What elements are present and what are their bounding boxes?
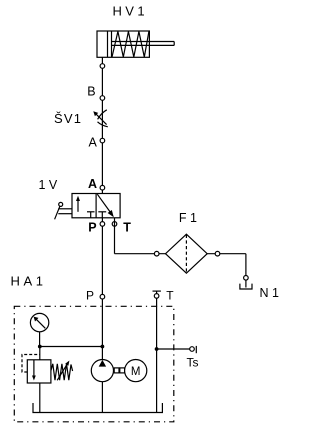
svg-text:1 V: 1 V [39,178,58,192]
cylinder HV1 spring [112,32,149,58]
junction at branch right [101,345,105,349]
node T at valve [112,222,117,227]
svg-text:F 1: F 1 [179,211,197,225]
relief valve pilot line [22,355,40,373]
node P at HA1 [100,294,105,299]
junction Ts branch [155,347,159,351]
node filter outlet [215,251,220,256]
wire pump to tank line [101,382,103,413]
node N1 [244,276,249,281]
tank manifold line [33,403,162,413]
svg-text:B: B [87,85,95,99]
svg-text:A: A [89,135,98,149]
node P at valve [100,222,105,227]
pump [91,360,113,382]
valve 1V left position arrow (P to A) [77,200,79,212]
node filter inlet [154,251,159,256]
tank N1 [240,284,252,289]
relief valve body [27,360,51,383]
Ts port cap [195,346,197,353]
cylinder HV1 rod [112,41,175,43]
svg-text:ŠV1: ŠV1 [54,111,82,126]
wire main vertical from cylinder port to valve [101,57,103,193]
node A at valve [100,185,105,190]
wire main vertical from valve P down to pump [101,218,103,360]
junction at branch left [38,345,42,349]
node cylinder port [100,64,105,69]
throttle valve SV1 [93,110,108,127]
node T at HA1 [154,294,159,299]
relief valve arrow [33,360,35,377]
node A [100,138,105,143]
svg-text:T: T [123,221,131,235]
filter F1 [166,234,208,273]
wire branch P to relief [40,346,103,348]
node B [100,96,105,101]
wire filter outlet to tank N1 [207,253,246,255]
valve 1V right position arrow (A to T) [97,194,111,213]
svg-text:HV1: HV1 [113,4,149,19]
wire relief to tank line [39,383,41,413]
cylinder HV1 piston [107,31,109,57]
node Ts [190,347,195,352]
svg-text:A: A [88,177,97,191]
svg-text:N 1: N 1 [260,286,280,300]
relief valve adjustment arrow [57,363,67,380]
svg-text:HA1: HA1 [11,274,47,289]
valve 1V left position blocked port [90,212,92,218]
svg-text:P: P [86,289,94,303]
svg-text:Ts: Ts [187,356,199,370]
wire T port down and to filter [114,218,116,254]
wire gauge stem [39,332,41,347]
pressure gauge [30,313,48,331]
valve 1V body [72,194,120,218]
svg-text:P: P [88,221,96,235]
valve 1V lever actuator [59,202,63,206]
relief valve spring [51,364,73,380]
motor [125,360,147,382]
svg-text:M: M [131,366,141,378]
wire T line HA1 [156,291,158,412]
T port cap at HA1 [153,290,161,292]
wire to relief valve [39,347,41,360]
pump coupling [114,368,119,373]
valve 1V right position blocked port [101,212,103,218]
HA1 enclosure (dash-dot) [14,306,174,422]
svg-text:T: T [166,289,174,303]
cylinder HV1 body [97,31,149,57]
wire Ts branch [157,348,192,350]
